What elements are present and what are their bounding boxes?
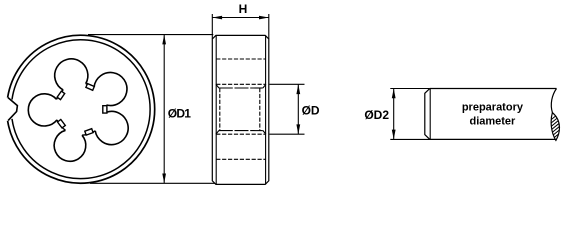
arrowhead H left	[212, 16, 222, 20]
D2 dimension line	[393, 89, 395, 140]
H extension line left	[211, 14, 213, 39]
chamfer line left	[215, 35, 217, 184]
arrowhead H right	[259, 16, 269, 20]
chip hole 4	[54, 130, 86, 161]
H dimension line	[212, 17, 268, 19]
bottom tangent extension line	[90, 182, 218, 184]
break line	[551, 89, 556, 113]
arrowhead D bottom	[296, 124, 300, 134]
svg-text:ØD1: ØD1	[168, 106, 191, 120]
D2 extension line bottom	[390, 138, 430, 140]
cutting land 4	[58, 120, 66, 128]
hidden line hole top	[216, 83, 265, 85]
chip hole 1	[94, 73, 127, 106]
svg-text:ØD: ØD	[302, 104, 320, 118]
thread hole arcs between chip holes	[57, 84, 107, 136]
D dimension line	[297, 84, 299, 134]
hole chamfer diagonals	[216, 84, 266, 134]
die body inner circle	[12, 40, 150, 179]
arrowhead D2 top	[392, 89, 396, 99]
bar left face	[425, 89, 430, 140]
chip hole 3	[28, 94, 57, 126]
bar bottom edge	[430, 138, 556, 140]
workpiece bar outline	[430, 88, 557, 90]
svg-text:preparatory: preparatory	[462, 102, 524, 114]
chip hole 5	[95, 111, 128, 144]
svg-text:ØD2: ØD2	[364, 108, 389, 122]
hidden bore right	[259, 88, 261, 131]
cutting land 2	[86, 84, 94, 91]
chip hole 2	[55, 59, 88, 90]
hidden line hole bottom	[216, 133, 265, 135]
D extension line bottom	[270, 133, 305, 135]
hidden bore bottom	[219, 130, 263, 132]
svg-text:H: H	[239, 2, 248, 16]
die body outer circle	[8, 35, 155, 183]
clamping notch	[8, 98, 17, 121]
cutting land 1	[103, 106, 107, 113]
hidden line chip holes top	[216, 58, 265, 60]
top tangent extension line	[88, 34, 213, 36]
arrowhead D2 bottom	[392, 130, 396, 140]
dimension line D1	[163, 35, 165, 184]
arrowhead D1 bottom	[162, 174, 166, 184]
cutting land 3	[57, 91, 65, 100]
cutting land 5	[85, 129, 93, 135]
D extension line top	[270, 83, 305, 85]
bar chamfer line	[429, 89, 431, 140]
arrowhead D top	[296, 84, 300, 94]
svg-text:diameter: diameter	[469, 116, 516, 128]
hidden line chip holes bottom	[216, 158, 265, 160]
die side view body	[212, 35, 268, 184]
break section hatching	[548, 109, 562, 146]
arrowhead D1 top	[162, 35, 166, 45]
D2 extension line top	[390, 88, 430, 90]
H extension line right	[268, 14, 270, 39]
hidden bore left	[219, 88, 221, 131]
hidden bore top	[219, 87, 263, 89]
chamfer line right	[265, 35, 267, 184]
